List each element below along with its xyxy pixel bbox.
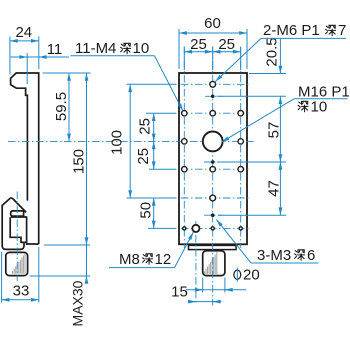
svg-text:10: 10 [311,99,328,116]
centerline: hole row A [181,83,249,85]
svg-text:59.5: 59.5 [53,92,70,121]
svg-text:15: 15 [171,284,188,301]
ext line bottom of bar [44,244,90,246]
svg-text:24: 24 [15,24,32,41]
leader+label M8 fukai12 [109,267,175,269]
side view: bracket profile outline [11,73,39,244]
hole M6 top (2-M6 #1) [210,81,216,87]
centerline: M8 column [195,221,197,303]
dim 47 right [217,161,286,163]
dim 50 left [148,227,177,229]
centerline: M16 row horizontal (long) [8,140,254,142]
dim 33 [1,252,3,303]
leader+label 2-M6 P1 fukai7 [261,37,346,39]
hole M8 [192,225,199,232]
front view: knob phi20 [203,251,225,276]
svg-text:20: 20 [243,267,260,284]
svg-text:MAX30: MAX30 [70,280,86,326]
phi symbol [234,270,241,279]
centerline: M3 dot2 row [204,161,222,163]
svg-text:2-M6 P1: 2-M6 P1 [263,22,320,39]
svg-text:33: 33 [13,283,30,300]
svg-text:3-M3: 3-M3 [257,247,291,264]
side view: clamp body left/bottom [2,205,24,250]
dim 60 [178,29,180,69]
svg-text:50: 50 [138,202,155,219]
dim 20.5 right [249,73,286,75]
dim 150 [86,73,88,245]
front view: bottom flange [189,245,237,249]
leader+label 3-M3 fukai6 [251,262,319,264]
svg-text:11: 11 [47,41,63,58]
svg-text:57: 57 [266,122,283,139]
centerline: hole row B [205,95,222,97]
svg-text:25: 25 [135,148,152,165]
side view: clamp knuckle diagonal [2,198,26,212]
svg-text:60: 60 [204,15,221,32]
svg-text:M8: M8 [119,251,140,268]
hole M16 center [203,132,223,152]
svg-text:11-M4: 11-M4 [75,40,116,57]
centerline: side knob vertical [16,192,18,282]
dim 25 25 top [183,47,185,71]
dim 100 left [127,83,177,85]
svg-text:47: 47 [266,180,283,197]
dim phi20 [202,278,204,293]
centerline: hole row F [181,197,249,199]
svg-text:10: 10 [133,40,150,57]
leader+label 11-M4 fukai10 [71,55,155,57]
centerline: column left [183,47,185,248]
dim 59.5 [43,72,91,74]
side view: bar lower-left edge and bottom [21,242,39,244]
side knob knurl hatch [13,253,25,274]
centerline: hole row C [181,112,249,114]
side view: bar lower-left vertical [26,217,28,242]
side view: clamp pad [11,211,24,216]
dim 25 25 left [146,112,177,114]
svg-text:100: 100 [109,130,126,155]
front view: plate outline [179,73,247,244]
side view: arm underside line [11,216,28,218]
side view: knob (knurled) [6,252,28,275]
svg-text:7: 7 [338,22,346,39]
dim MAX30 [30,275,91,277]
centerline: hole row E [181,168,249,170]
hole M6 lower (2-M6 #2) [210,195,216,201]
svg-text:20.5: 20.5 [264,37,281,66]
centerline: hole row G [181,227,249,229]
centerline: column right [240,47,242,248]
holes M3 x3 on center column [211,95,215,99]
dim 24 top-left [9,37,11,75]
svg-text:25: 25 [137,118,154,135]
leader+label M16 P1 fukai10 [294,98,348,100]
svg-text:25: 25 [218,36,235,53]
dim 11 top-left [26,53,28,84]
small holes row G [183,227,186,230]
dim 15 [188,301,222,303]
svg-text:12: 12 [155,251,172,268]
centerline: column center (through knob) [212,47,214,306]
svg-text:25: 25 [190,36,207,53]
svg-text:150: 150 [70,149,87,174]
dim 57 right [279,96,281,162]
holes 11-M4 [182,111,187,116]
svg-text:6: 6 [307,247,315,264]
centerline: M3 dot3 row [204,214,222,216]
